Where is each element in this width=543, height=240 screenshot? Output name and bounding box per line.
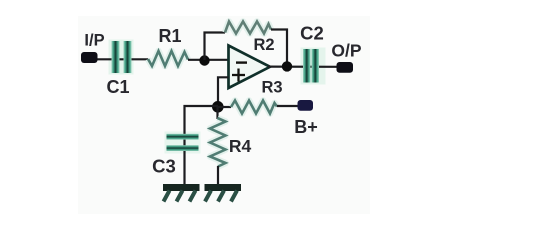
ground G1 hatch 3 — [190, 191, 196, 202]
node B junction dot — [212, 101, 224, 113]
svg-text:O/P: O/P — [331, 40, 361, 60]
wire feedback right vertical down to output node — [271, 30, 287, 67]
resistor R3 halo — [231, 101, 277, 114]
svg-text:R1: R1 — [158, 26, 181, 46]
wire op-amp output to C2 — [268, 65, 340, 67]
capacitor C2 right plate — [312, 49, 320, 83]
ground G2 hatch 3 — [231, 191, 237, 202]
svg-text:I/P: I/P — [84, 32, 104, 50]
node A junction dot — [199, 55, 209, 65]
capacitor C3 top plate — [167, 134, 199, 140]
capacitor C3 bottom plate — [167, 145, 199, 151]
op-amp U1 body fill — [229, 46, 271, 89]
wire R4 to ground — [217, 166, 219, 185]
resistor R1 halo — [148, 51, 188, 66]
op-amp non-inverting plus mark horizontal — [232, 74, 245, 76]
svg-text:C3: C3 — [152, 156, 176, 177]
ground G2 hatch 1 — [205, 191, 211, 202]
terminal B+ pad — [298, 100, 314, 111]
op-amp inverting minus mark — [236, 61, 247, 63]
svg-text:C1: C1 — [106, 77, 129, 97]
resistor R4 halo — [210, 118, 226, 167]
node output junction dot — [282, 61, 292, 71]
svg-text:R2: R2 — [253, 36, 274, 54]
svg-text:C2: C2 — [300, 23, 324, 44]
svg-text:B+: B+ — [294, 117, 318, 137]
wire node B left to C3 branch — [185, 106, 219, 185]
wire node B to R3 — [218, 106, 231, 108]
capacitor C1 halo — [109, 40, 134, 75]
wire non-inverting input down to node B — [218, 77, 229, 106]
ground G1 bar — [163, 184, 200, 191]
svg-text:R3: R3 — [261, 78, 282, 96]
ground G1 hatch 2 — [177, 191, 183, 202]
ground G2 bar — [205, 184, 242, 191]
resistor R2 halo — [225, 22, 271, 34]
ground G1 hatch 1 — [164, 191, 170, 202]
wire I/P to C1 — [93, 58, 148, 60]
capacitor C3 halo — [165, 132, 201, 154]
op-amp non-inverting plus mark vertical — [237, 69, 239, 82]
faint background tint over schematic area — [78, 16, 370, 214]
svg-text:R4: R4 — [229, 136, 252, 156]
resistor R3 zigzag — [231, 101, 277, 114]
resistor R4 zigzag — [210, 118, 226, 167]
resistor R2 zigzag — [225, 22, 271, 34]
capacitor C2 halo — [301, 48, 326, 85]
terminal I/P pad — [81, 52, 98, 63]
capacitor C2 left plate — [303, 49, 311, 83]
wire node B down to R4 — [216, 107, 218, 119]
resistor R1 zigzag — [148, 51, 188, 66]
wire feedback left vertical — [205, 33, 226, 61]
wire R1 to op-amp inverting input — [188, 59, 230, 61]
wire R3 to B+ terminal — [277, 105, 300, 107]
terminal O/P pad — [337, 62, 354, 73]
capacitor C1 left plate — [112, 41, 120, 73]
ground G2 hatch 2 — [218, 191, 224, 202]
capacitor C1 right plate — [124, 41, 132, 73]
